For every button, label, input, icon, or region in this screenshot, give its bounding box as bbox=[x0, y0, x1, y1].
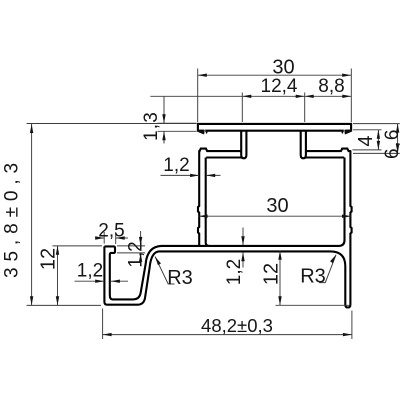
dimension 1,2 (C-channel lip thickness) bbox=[117, 231, 146, 268]
profile: box right wall and leg with ribs bbox=[162, 150, 352, 304]
profile: right screw-channel wall bbox=[301, 130, 306, 158]
dimension 2,5 (C-channel lip reach) bbox=[95, 221, 128, 245]
svg-text:1,2: 1,2 bbox=[163, 155, 189, 176]
profile: C-channel with lip and S-bend to web bbox=[104, 246, 162, 305]
svg-text:6,6: 6,6 bbox=[382, 128, 400, 159]
profile: flange left lip barb bbox=[197, 130, 208, 135]
svg-text:1,2: 1,2 bbox=[125, 241, 146, 267]
svg-text:48,2±0,3: 48,2±0,3 bbox=[201, 315, 273, 336]
dimension 1,2 (web thickness) bbox=[224, 228, 245, 286]
dimension 35,8±0,3 (overall height) bbox=[2, 124, 197, 306]
svg-text:12,4: 12,4 bbox=[261, 76, 298, 97]
svg-text:1,2: 1,2 bbox=[77, 261, 103, 282]
profile: flange right lip barb bbox=[341, 130, 352, 135]
svg-text:12: 12 bbox=[261, 263, 283, 285]
profile: left screw-channel wall bbox=[241, 130, 246, 158]
radius label R3 (right fillet) bbox=[300, 255, 336, 288]
profile: box ceiling right panel with tooth bbox=[304, 149, 351, 159]
dimension 1,2 (C-channel wall thickness) bbox=[75, 261, 129, 283]
profile: top flange bbox=[198, 124, 351, 132]
dimension 12 (C-channel depth, left) bbox=[38, 246, 103, 305]
dimension 48,2±0,3 (overall width) bbox=[103, 309, 352, 340]
dimension 30 (box outer width) bbox=[199, 195, 351, 218]
dimension 4 (lip to hook gap) bbox=[353, 130, 382, 150]
profile: box left wall with ribs bbox=[198, 150, 209, 246]
radius label R3 (left fillet) bbox=[155, 257, 193, 290]
svg-text:R3: R3 bbox=[167, 267, 193, 289]
svg-text:4: 4 bbox=[355, 135, 377, 146]
svg-text:2,5: 2,5 bbox=[98, 221, 124, 242]
svg-text:1,3: 1,3 bbox=[141, 111, 162, 141]
profile: box ceiling left panel with tooth bbox=[199, 149, 243, 159]
dimension 30 (flange width, top) bbox=[198, 57, 352, 123]
svg-text:1,2: 1,2 bbox=[224, 259, 245, 285]
svg-text:12: 12 bbox=[38, 248, 60, 270]
dimension 8,8 bbox=[305, 76, 352, 122]
dimension 12,4 (screw channel outer width) bbox=[150, 76, 304, 122]
svg-text:30: 30 bbox=[266, 195, 288, 217]
svg-text:8,8: 8,8 bbox=[318, 76, 344, 97]
dimension 6,6 (flange to ceiling) bbox=[353, 124, 400, 159]
dimension 1,3 (flange thickness) bbox=[141, 96, 197, 143]
dimension 12 (web to bottom, right) bbox=[261, 251, 350, 306]
svg-text:R3: R3 bbox=[300, 266, 326, 288]
profile: bottom web with R3 fillet into leg bbox=[159, 251, 351, 307]
dimension 1,2 (box left wall thickness) bbox=[161, 155, 221, 177]
svg-text:35,8±0,3: 35,8±0,3 bbox=[2, 157, 23, 278]
